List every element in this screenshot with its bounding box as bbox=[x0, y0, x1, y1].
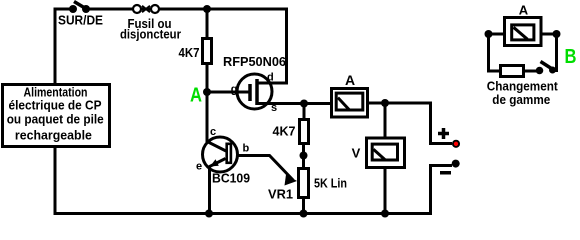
wire: A2 right lead bbox=[541, 33, 557, 36]
svg-text:4K7: 4K7 bbox=[179, 45, 200, 60]
wire: battery negative to bottom rail, bottom rail, up to minus terminal bbox=[55, 147, 452, 214]
ammeter A1 bbox=[332, 89, 368, 118]
svg-text:s: s bbox=[271, 102, 277, 114]
junction: Q2 emitter / bottom rail bbox=[205, 210, 213, 218]
svg-text:d: d bbox=[267, 72, 274, 84]
label - bbox=[440, 171, 451, 175]
wire: V1 bottom lead bbox=[384, 166, 387, 214]
wire: top rail (switch to fuse to corner) bbox=[86, 8, 288, 11]
svg-text:RFP50N06: RFP50N06 bbox=[223, 54, 286, 69]
resistor R2 bbox=[300, 120, 309, 144]
wire: V1 top lead bbox=[384, 103, 387, 138]
svg-text:électrique de CP: électrique de CP bbox=[9, 98, 102, 113]
terminal dot: A2 left bbox=[485, 30, 493, 38]
wire: R2 top lead bbox=[303, 104, 306, 120]
wire: A2 left lead bbox=[489, 33, 505, 36]
voltmeter V1 bbox=[367, 138, 405, 168]
wire: source of Q1 to ammeter A1 bbox=[257, 102, 331, 105]
svg-text:e: e bbox=[196, 161, 202, 173]
svg-text:5K Lin: 5K Lin bbox=[314, 176, 347, 191]
label Fusil ou disjoncteur bbox=[120, 16, 181, 42]
svg-text:rechargeable: rechargeable bbox=[15, 127, 92, 142]
wire: VR1 wiper from Q2 base bbox=[232, 156, 293, 181]
svg-text:de gamme: de gamme bbox=[492, 92, 550, 107]
svg-text:disjoncteur: disjoncteur bbox=[120, 27, 181, 42]
wire: R3 to switch SW2 bbox=[524, 70, 540, 73]
wire: A1 to plus terminal bbox=[368, 103, 453, 144]
wire: drain of Q1 to top rail bbox=[257, 9, 287, 83]
wire: left branch down to R3 bbox=[489, 34, 501, 71]
svg-text:A: A bbox=[519, 2, 529, 17]
svg-text:ou paquet de pile: ou paquet de pile bbox=[7, 112, 104, 127]
resistor R1 bbox=[203, 39, 212, 64]
junction: VR1 / bottom rail bbox=[300, 210, 308, 218]
label + bbox=[438, 128, 449, 139]
potentiometer VR1 body bbox=[299, 169, 309, 198]
junction: R2 / VR1 bbox=[300, 152, 308, 160]
svg-text:B: B bbox=[565, 46, 577, 68]
svg-text:BC109: BC109 bbox=[212, 171, 250, 186]
VR1 wiper arrowhead bbox=[285, 175, 298, 186]
plus output terminal bbox=[453, 141, 459, 147]
junction: A1 out / voltmeter V1 bbox=[381, 99, 389, 107]
wire: R1 bottom to node A to Q2 collector bbox=[206, 63, 209, 137]
switch SW1 bbox=[69, 2, 90, 14]
svg-text:b: b bbox=[243, 143, 250, 155]
wire: VR1 bottom lead bbox=[302, 197, 305, 214]
wire: SW2 to right branch up bbox=[553, 34, 557, 71]
junction: top rail / R1 bbox=[203, 5, 211, 13]
label Changement de gamme bbox=[487, 79, 559, 107]
minus output terminal bbox=[452, 160, 460, 168]
svg-text:VR1: VR1 bbox=[268, 187, 293, 202]
svg-text:c: c bbox=[210, 126, 216, 138]
svg-text:g: g bbox=[231, 84, 238, 96]
fuse F1 (fusil ou disjoncteur) bbox=[133, 5, 159, 13]
resistor R3 (shunt) bbox=[501, 66, 524, 77]
junction: source rail / R2 bbox=[300, 100, 308, 108]
wire: R1 top lead bbox=[206, 9, 209, 38]
svg-text:4K7: 4K7 bbox=[273, 124, 296, 139]
ammeter A2 (changement de gamme) bbox=[505, 18, 542, 46]
switch SW2 (range switch) bbox=[536, 62, 556, 75]
junction: V1 / bottom rail bbox=[381, 210, 389, 218]
svg-text:SUR/DE: SUR/DE bbox=[58, 13, 103, 28]
wire: gate of Q1 bbox=[207, 91, 250, 94]
power box PS1: Alimentation electrique bbox=[3, 85, 110, 147]
svg-text:V: V bbox=[352, 146, 361, 161]
wire: top rail left (battery to switch SW1) bbox=[55, 9, 73, 84]
transistor Q2 BC109 (NPN) bbox=[203, 137, 238, 214]
svg-text:A: A bbox=[190, 84, 202, 106]
terminal dot: A2 right bbox=[553, 30, 561, 38]
svg-text:A: A bbox=[345, 72, 355, 88]
node A junction bbox=[203, 88, 211, 96]
wire: R2 bottom to VR1 top bbox=[302, 143, 305, 168]
transistor Q1 RFP50N06 (N-MOSFET) bbox=[237, 74, 272, 109]
